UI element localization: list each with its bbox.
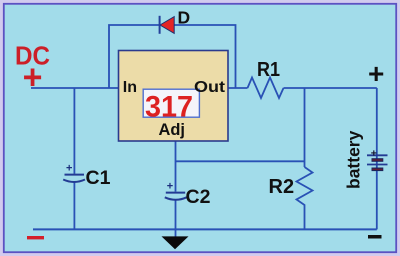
svg-text:battery: battery: [343, 130, 363, 189]
svg-text:R1: R1: [257, 59, 280, 81]
svg-text:+: +: [66, 162, 72, 174]
svg-text:C2: C2: [186, 186, 211, 208]
svg-text:Adj: Adj: [159, 121, 186, 139]
svg-text:+: +: [167, 180, 173, 192]
svg-text:Out: Out: [194, 79, 226, 96]
svg-text:+: +: [371, 147, 377, 159]
svg-text:In: In: [123, 79, 137, 96]
svg-text:+: +: [368, 58, 384, 89]
svg-text:+: +: [23, 58, 43, 96]
svg-text:D: D: [178, 8, 191, 28]
svg-text:317: 317: [145, 90, 193, 123]
svg-text:C1: C1: [86, 167, 111, 189]
svg-text:R2: R2: [269, 176, 295, 198]
